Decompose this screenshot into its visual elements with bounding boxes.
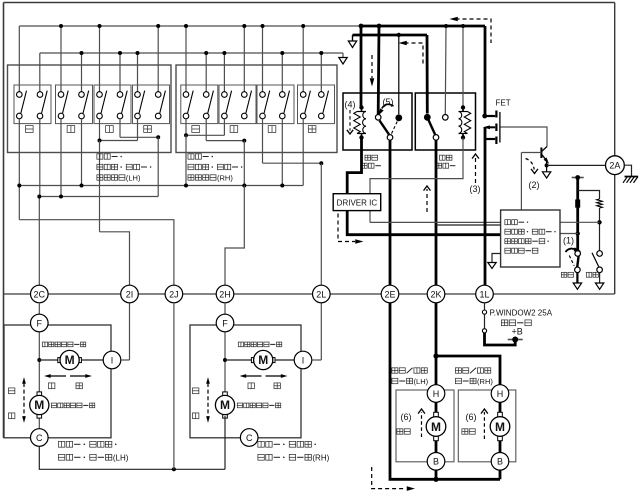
svg-text:(1): (1) xyxy=(563,236,574,246)
frame right wire to connector 2A (upper) xyxy=(614,3,616,157)
power outer mirror motor (LH) box xyxy=(4,325,111,438)
label storage relay xyxy=(365,155,371,160)
svg-text:I: I xyxy=(302,355,305,365)
svg-text:M: M xyxy=(258,353,268,367)
chassis ground at 2A xyxy=(624,165,631,176)
storage/return motor (RH) box xyxy=(458,390,516,462)
bus B1 horizontal feed y26 (gray part) xyxy=(19,25,361,27)
label storage (LH motor) xyxy=(397,429,403,434)
label right (RH) xyxy=(274,383,280,389)
wire drop bus B1 to relay RY2 contact xyxy=(444,26,447,114)
label right (LH) xyxy=(144,126,152,133)
wire thick relay RY1 common down to connector 2E and bottom bus xyxy=(390,140,436,480)
wire thick drop bus B1 to relay RY1 coil xyxy=(360,26,363,108)
wire bus B1 drop to switch 1a top xyxy=(18,26,20,92)
off-page triangle at bus B2 right end xyxy=(342,53,344,58)
svg-text:2A: 2A xyxy=(609,161,620,171)
label power outer mirror motor (RH) xyxy=(258,441,264,447)
svg-text:C: C xyxy=(246,433,253,443)
relay RY2 switch: fixed contact left (closed side) xyxy=(424,114,431,121)
wire from switch 2a down to bus H2 xyxy=(60,119,62,197)
wire thick DRIVER IC output to module xyxy=(347,211,500,235)
wire bus B1 drop to switch 5a xyxy=(185,26,187,92)
relay RY1 switch: common contact xyxy=(387,135,393,141)
svg-text:B: B xyxy=(497,457,503,467)
label left (LH) xyxy=(106,126,114,133)
relay RY2 switch: fixed contact right xyxy=(443,115,449,121)
label right (RH) xyxy=(308,126,316,133)
svg-text:M: M xyxy=(220,398,230,412)
svg-text:(RH): (RH) xyxy=(217,174,233,183)
off-page triangle at bus B3 left end xyxy=(352,35,354,41)
frame left border wire xyxy=(3,3,5,438)
wire bus B1 drop to switch 7a xyxy=(262,26,264,92)
wire net-3 from switch 3a tie down to elbow xyxy=(99,141,101,232)
label return (switch) xyxy=(586,272,591,277)
wire module right edge to resistor node xyxy=(560,221,600,223)
svg-text:2K: 2K xyxy=(430,289,441,299)
switch contacts up (RH) left xyxy=(185,90,187,93)
wire from switch 6b tie down to bus H1 xyxy=(243,141,245,186)
transistor Q2 xyxy=(540,148,542,159)
svg-text:(4): (4) xyxy=(345,100,356,110)
label up (LH) xyxy=(8,388,14,394)
switch contacts right (LH) right xyxy=(157,90,159,93)
RH tie wire: 7a to 8b below box xyxy=(262,119,264,163)
wire from switch 5a tie down to bus H1 xyxy=(185,135,187,185)
svg-text:P.WINDOW2 25A: P.WINDOW2 25A xyxy=(490,309,553,318)
wire from switch 2b down to bus H1 xyxy=(81,119,83,186)
wire motor M1 to pin I (LH) xyxy=(81,359,103,361)
connector 2C xyxy=(31,285,49,303)
switch contacts right (RH) right xyxy=(320,90,322,93)
label left-right adjust motor (LH) xyxy=(42,342,47,347)
wire bus B1 drop to switch 6b xyxy=(243,26,245,92)
wire 2C down through pin F to motor column (LH) xyxy=(38,303,40,429)
motor M2 up-down (LH) xyxy=(37,392,42,397)
wire pin I to connector 2L (RH) xyxy=(312,359,322,361)
relay RY1 coil xyxy=(361,108,363,112)
wire bus B3 thick drop to relay RY2 contact xyxy=(426,35,429,114)
wire motor M4 down to pin-C wire (RH) xyxy=(224,416,226,469)
svg-text:2C: 2C xyxy=(34,289,46,299)
bottom bus thick B(LH) to B(RH) xyxy=(436,478,500,481)
power outer mirror motor (RH) box xyxy=(190,325,301,438)
storage relay RY1 box xyxy=(343,93,412,150)
svg-text:(LH): (LH) xyxy=(414,377,429,386)
switch contacts left (RH) left xyxy=(262,90,264,93)
switch group left (RH) sub-box xyxy=(257,85,294,124)
svg-text:I: I xyxy=(111,355,114,365)
svg-text:(LH): (LH) xyxy=(113,454,129,463)
wire storage switch to ground triangle xyxy=(576,273,578,283)
wire pin C down and right (LH) xyxy=(39,446,225,469)
svg-text:(6): (6) xyxy=(401,412,412,422)
label power outer mirror switch (RH) xyxy=(188,154,194,159)
wire to motor M3 (RH) xyxy=(225,359,252,361)
wire from switch 4b tie down to bus H2 end xyxy=(157,137,159,196)
dashed arrow up to relay RY2 (between 2E and 2K lines) xyxy=(426,189,428,212)
pin F (RH) xyxy=(216,314,234,332)
svg-text:M: M xyxy=(495,420,505,434)
wire thick through H M B (RH) xyxy=(499,384,502,479)
connector 2A xyxy=(606,156,625,175)
svg-text:2L: 2L xyxy=(316,289,326,299)
label left (RH) xyxy=(248,383,254,389)
wire thick through H M B (LH) xyxy=(435,384,438,479)
connector 2L xyxy=(313,285,331,303)
node on motor column (LH) xyxy=(37,358,41,362)
svg-text:F: F xyxy=(222,318,228,328)
label left (RH) xyxy=(268,126,276,133)
svg-text:M: M xyxy=(431,420,441,434)
label left-right adjust motor (RH) xyxy=(238,342,243,347)
switch contacts down (LH) right xyxy=(81,90,83,93)
switch contacts down (RH) right xyxy=(243,90,245,93)
wire bus B1 drop to switch 8a xyxy=(302,26,304,92)
fuse P.WINDOW2 25A xyxy=(482,310,486,314)
label storage/return motor (LH) xyxy=(392,368,398,373)
label down (RH) xyxy=(230,126,238,133)
wire thick fuse to +B terminal xyxy=(485,333,516,345)
connector 2J xyxy=(165,285,183,303)
bus B3 thick feed y35 to relays xyxy=(353,34,428,37)
motor M6 storage (RH) xyxy=(498,412,503,417)
label down (RH) xyxy=(192,413,198,419)
svg-text:C: C xyxy=(36,433,43,443)
wire motor M3 to pin I (RH) xyxy=(275,359,294,361)
motor M1 left-right (LH) xyxy=(58,358,63,363)
resistor R1 xyxy=(597,199,603,208)
label power outer mirror switch (LH) xyxy=(97,154,103,159)
connector 2H xyxy=(216,285,234,303)
return switch SW2 (in module) xyxy=(597,251,603,257)
switch contacts up (RH) right xyxy=(205,90,207,93)
dashed arrow below DRIVER IC xyxy=(338,214,355,242)
label up (RH) xyxy=(192,126,200,133)
svg-text:2E: 2E xyxy=(384,289,395,299)
wire bus B2 drop to switch 6a xyxy=(223,53,225,92)
label left (LH) xyxy=(48,383,54,389)
ground triangle below transistor emitter xyxy=(546,165,548,171)
label down (LH) xyxy=(8,413,14,419)
pin F (LH) xyxy=(31,314,49,332)
wire to motor M1 (LH) xyxy=(39,359,58,361)
wire connector 2J down to pin-C wire xyxy=(173,303,175,470)
wire branch to resistor xyxy=(578,191,600,200)
switch contacts up (LH) right xyxy=(39,90,41,93)
label power outer mirror motor (LH) xyxy=(58,441,64,447)
connector 2E xyxy=(381,285,399,303)
left-right arrows (LH) xyxy=(49,375,66,377)
wire thick bus B1 corner down to FET drain xyxy=(484,26,487,116)
dashed arrow (6) RH xyxy=(483,412,485,439)
wire pin I to connector 2I (LH) xyxy=(121,359,130,361)
dashed arrow (6) LH xyxy=(421,412,423,437)
pin B (RH) xyxy=(491,453,509,471)
label up (LH) xyxy=(26,126,34,133)
wire thick FET source down to connector 1L xyxy=(484,127,487,294)
pin C (LH) xyxy=(31,429,49,447)
power outer mirror control module box xyxy=(501,210,560,267)
bus B2 horizontal feed y53 xyxy=(40,52,343,54)
left-right arrows (RH) xyxy=(245,375,262,377)
bus H3 y219.7 to connector 2J xyxy=(19,220,174,294)
label up-down adjust motor (LH) xyxy=(51,403,56,408)
RH tie wire: 5a to 6a xyxy=(185,119,187,136)
switch contacts left (RH) right xyxy=(281,90,283,93)
wire from switch 8a down to bus H1 right end xyxy=(302,119,304,186)
dashed arrow A (current path, top right) xyxy=(456,19,492,43)
switch group right (RH) sub-box xyxy=(298,85,335,124)
pin H (LH) xyxy=(427,385,445,403)
wire return switch to ground triangle xyxy=(599,273,601,283)
curved arrow (5) relay RY1 armature motion xyxy=(382,104,394,108)
wire bus B2 drop to switch 2b xyxy=(81,53,83,92)
switch contacts left (LH) left xyxy=(99,90,101,93)
+B terminal bar xyxy=(508,339,523,341)
switch contacts up (LH) left xyxy=(18,90,20,93)
svg-text:DRIVER IC: DRIVER IC xyxy=(337,198,378,207)
FET Q1 xyxy=(482,114,487,119)
wire bus B2 drop to switch 4a xyxy=(137,53,139,92)
switch group up (LH) sub-box xyxy=(14,85,51,124)
wire gray horizontal into module left edge y222.4 xyxy=(370,221,501,223)
dashed arrow B (current path into relay RY1) xyxy=(371,55,373,78)
wire bus B2 drop to switch 5b xyxy=(205,53,207,92)
svg-text:(3): (3) xyxy=(470,184,481,194)
wire thin from 2K line to module y225 xyxy=(436,224,501,226)
svg-text:H: H xyxy=(497,389,504,399)
switch contacts right (RH) left xyxy=(302,90,304,93)
bus H1 y185.5 xyxy=(19,185,303,187)
motor M5 storage (LH) xyxy=(434,412,439,417)
svg-text:(LH): (LH) xyxy=(126,174,141,183)
svg-text:FET: FET xyxy=(496,99,511,108)
switch group down (LH) sub-box xyxy=(56,85,93,124)
dashed arrow exit bottom xyxy=(372,467,406,489)
bus H2 y196.5 xyxy=(39,196,158,198)
wire module right edge to +B feed line xyxy=(560,233,578,235)
connector 2I xyxy=(121,285,139,303)
switch group right (LH) sub-box xyxy=(133,85,170,124)
switch contacts down (RH) left xyxy=(223,90,225,93)
storage/return motor (LH) box xyxy=(396,390,454,462)
switch contacts left (LH) right xyxy=(119,90,121,93)
label down (LH) xyxy=(67,126,75,133)
svg-text:2J: 2J xyxy=(169,289,179,299)
svg-text:M: M xyxy=(65,353,75,367)
wire bus B2 drop to switch 1b xyxy=(39,53,41,92)
wire 2H down through pin F to motor column (RH) xyxy=(224,303,226,393)
curved arrow (1) storage switch closing xyxy=(566,249,577,252)
wire bus B2 drop to switch 3b xyxy=(119,53,121,92)
wire thick junction down to storage motor LH xyxy=(435,356,438,384)
wire drop bus B1 to relay RY2 coil xyxy=(462,26,464,108)
dashed arrow (3) up toward relay RY2 xyxy=(475,157,477,183)
RH tie wire: 5b to 6b xyxy=(205,119,207,141)
wire bus B2 drop to switch 8b xyxy=(320,53,322,92)
svg-text:(6): (6) xyxy=(466,412,477,422)
svg-text:2I: 2I xyxy=(126,289,134,299)
switch group down (RH) sub-box xyxy=(219,85,256,124)
connector row wire y294 xyxy=(4,293,615,295)
wire module bottom-left to ground triangle xyxy=(492,254,501,263)
svg-text:+B: +B xyxy=(512,327,523,337)
relay RY2 switch: common contact xyxy=(433,135,439,141)
wire thick drop bus B1 to relay RY1 contact xyxy=(377,26,381,114)
up-down arrows (RH) xyxy=(207,383,209,417)
node pin-C wire to connector 2J xyxy=(172,467,176,471)
node junction 2K line to storage motors xyxy=(433,353,438,358)
wire net-1 vertical from switch 1a down to bus H1/H3 xyxy=(18,119,20,220)
dashed arrow C (current path above relay RY1) xyxy=(405,43,424,64)
relay RY1 switch: moving arm (thick) and alternate position (dashed) xyxy=(380,121,390,135)
label right (LH) xyxy=(76,383,82,389)
svg-text:F: F xyxy=(37,318,43,328)
connector 1L xyxy=(476,285,494,303)
label power outer mirror control module xyxy=(505,220,511,225)
wire from switch 8b tie down to connector 2L and mirror motor RH pin I xyxy=(320,163,322,360)
wire net-3 elbow to connector 2I xyxy=(100,232,130,360)
wire from bus H1 down to connector 2H xyxy=(225,186,244,295)
label storage (RH motor) xyxy=(462,429,468,434)
DRIVER IC box xyxy=(333,194,381,211)
switch group up (RH) sub-box xyxy=(181,85,218,124)
motor M3 left-right (RH) xyxy=(251,358,256,363)
up-down arrows (LH) xyxy=(23,383,25,417)
dashed arrow (4) inside relay RY1 xyxy=(349,110,351,131)
switch contacts right (LH) left xyxy=(137,90,139,93)
frame top border wire xyxy=(4,2,615,4)
dashed curved arrow (2) xyxy=(526,159,535,170)
svg-text:(RH): (RH) xyxy=(312,454,329,463)
svg-text:H: H xyxy=(433,389,440,399)
return relay RY2 box xyxy=(415,93,475,150)
connector 2K xyxy=(427,285,445,303)
label up-down adjust motor (RH) xyxy=(237,403,242,408)
wire thick junction to storage motor RH xyxy=(436,356,500,384)
label storage/return motor (RH) xyxy=(455,368,461,373)
wire transistor emitter to node and connector 2A xyxy=(546,161,548,166)
supply terminal bar above module feed xyxy=(572,177,584,179)
pin H (RH) xyxy=(491,385,509,403)
node on motor column (RH) xyxy=(223,358,227,362)
relay RY2 coil xyxy=(462,108,464,112)
wire bus B1 drop to switch 2a xyxy=(60,26,62,92)
svg-text:(RH): (RH) xyxy=(477,377,493,386)
pin I (LH) xyxy=(103,351,121,369)
label up (RH) xyxy=(192,388,198,394)
power outer mirror switch (LH) box xyxy=(8,65,172,153)
label storage (switch) xyxy=(561,272,566,277)
LH tie wire left-adjust: 3a to 4a xyxy=(99,119,101,141)
pin C (RH) xyxy=(240,429,258,447)
svg-text:2H: 2H xyxy=(219,289,231,299)
wire bus B1 drop to switch 4b xyxy=(157,26,159,92)
LH tie wire right-adjust: 3b to 4b xyxy=(119,119,121,138)
wire thick relay RY2 common down to connector 2K and junction xyxy=(435,140,438,356)
storage switch SW1 (in module) xyxy=(575,251,581,257)
wire 1L to fuse xyxy=(484,303,486,310)
switch group left (LH) sub-box xyxy=(94,85,131,124)
pin I (RH) xyxy=(294,351,312,369)
motor M4 up-down (RH) xyxy=(224,393,226,416)
switch contacts down (LH) left xyxy=(60,90,62,93)
power outer mirror switch (RH) box xyxy=(176,65,337,153)
frame right wire from 2A down to connector row xyxy=(614,175,616,294)
svg-text:B: B xyxy=(433,457,439,467)
relay RY2 switch: moving arm (thick) xyxy=(429,120,436,135)
wire relay RY2 coil down-left-down to module (gray) xyxy=(370,138,463,222)
wire FET gate to transistor collector xyxy=(501,127,548,147)
pin B (LH) xyxy=(427,453,445,471)
svg-text:M: M xyxy=(34,398,44,412)
wire resistor down to return switch xyxy=(599,208,601,251)
wire thick relay RY1 coil to DRIVER IC xyxy=(347,138,361,194)
relay RY1 switch: fixed contact left xyxy=(375,115,381,121)
svg-text:1L: 1L xyxy=(479,289,489,299)
bus B1 thick part to FET drain xyxy=(361,25,485,28)
svg-text:(2): (2) xyxy=(529,180,540,190)
label return relay xyxy=(439,155,445,160)
relay RY1 switch: fixed contact right (closed side) xyxy=(395,114,402,121)
wire bus B2 drop to switch 7b xyxy=(281,53,283,92)
wire net-2 vertical from switch 1b down to connector 2C xyxy=(39,119,41,197)
wire from switch 7b down to bus H1 xyxy=(281,119,283,186)
wire transistor base down to module top xyxy=(520,153,522,211)
wire thick module +B feed down to storage switch xyxy=(576,178,579,252)
wire bus B3 drop to relay RY1 contact xyxy=(398,35,400,114)
fusible link bar on module feed xyxy=(575,200,580,208)
wire bus B1 drop to switch 3a xyxy=(99,26,101,92)
